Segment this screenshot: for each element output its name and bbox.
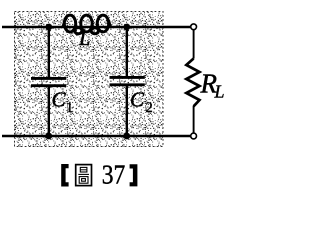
svg-text:C: C [52,88,67,112]
caption: right lenticular bracket of 【圖 37】 [130,164,138,186]
junction node: C1 / bottom rail [45,133,52,140]
capacitor C2: bottom lead wire [126,86,128,137]
capacitor C2: top lead wire [126,27,128,77]
caption: left lenticular bracket of 【圖 37】 [61,164,68,187]
svg-text:1: 1 [66,100,73,116]
filter network dashed boundary box with stipple fill [15,12,164,147]
junction node: C2 / top rail [123,24,130,31]
svg-text:37: 37 [102,159,126,189]
capacitor C2 plates [110,77,145,84]
svg-text:L: L [214,82,225,102]
output terminal (open circle, top) [191,24,197,30]
svg-text:C: C [130,88,145,112]
label C1 [52,88,74,117]
wire: bottom rail from input to output terminal [2,135,191,138]
caption: hanzi 圖 (figure) drawn glyph [76,165,92,186]
wire: resistor top lead [193,30,195,59]
capacitor C1: bottom lead wire [48,87,50,137]
capacitor C1: top lead wire [48,27,50,78]
wire: resistor bottom lead [193,106,195,133]
resistor RL (zigzag) [186,59,199,107]
output terminal (open circle, bottom) [191,133,197,139]
svg-text:2: 2 [146,100,153,116]
svg-text:L: L [78,28,90,50]
junction node: C2 / bottom rail [123,133,130,140]
inductor L (coil between node A and node B on top rail) [63,15,112,34]
label C2 [130,88,153,117]
label RL [200,69,225,102]
junction node: C1 / top rail [45,24,52,31]
capacitor C1 plates [31,78,66,85]
wire: top rail from input to output terminal [2,26,191,29]
